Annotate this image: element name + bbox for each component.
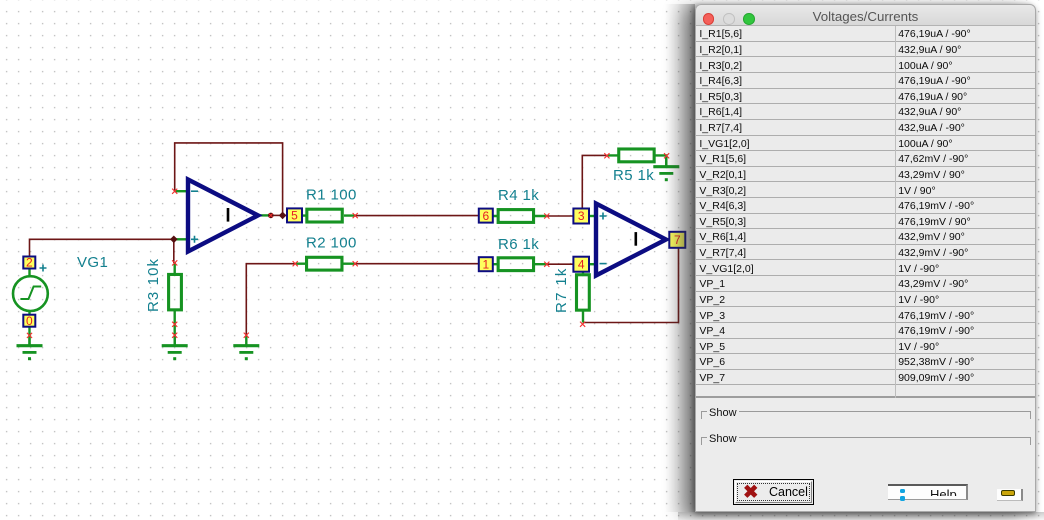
svg-text:R2 100: R2 100 [306,235,357,252]
op-amp U1 [188,180,258,252]
ground below R3 [173,335,175,346]
R5 leads [608,155,667,166]
R4 leads [493,215,547,217]
pin marker R3 top [172,260,177,265]
minimize traffic light [723,13,735,25]
wire U1 feedback loop [175,143,283,216]
svg-text:R4 1k: R4 1k [498,187,539,204]
VG1 plus polarity mark [40,265,47,272]
U1 output stub [257,214,272,216]
ground below R2 left wire [245,335,247,346]
junction at feedback/output node [279,212,287,220]
svg-text:R1 100: R1 100 [306,187,357,204]
R2 leads [296,263,357,265]
U1 inverting input stub [175,190,188,192]
R7 top lead [582,271,584,275]
pin marker R5 left [604,153,609,158]
pin marker VG1 ground [27,333,32,338]
pin marker R7 bottom [580,322,585,327]
svg-text:R3 10k: R3 10k [145,258,162,312]
node 0 [23,315,35,327]
svg-text:2: 2 [26,256,33,270]
resistor R2 [307,257,342,270]
VG1 top pin stub [28,269,30,276]
pin marker R6 right [544,262,549,267]
node 4 stub to U2 [589,263,595,265]
node 2 [23,257,35,269]
svg-text:4: 4 [578,257,585,271]
svg-text:6: 6 [482,209,489,223]
R1 leads [302,214,356,216]
resistor R1 [307,209,342,222]
Cancel button [733,479,814,505]
pin marker U1 inverting [172,189,177,194]
wire U1 output to node 5 [271,214,287,216]
ground below VG1 [28,335,30,346]
node 3 stub to U2 [589,215,595,217]
Voltages/Currents window [695,4,1036,512]
svg-text:0: 0 [26,314,33,328]
resistor R3 (vertical) [169,274,182,309]
resistor R4 [498,210,533,223]
U2 output stub [665,238,670,240]
pin marker R2 right [353,261,358,266]
wire R6 right to node 4 [547,263,573,265]
pin marker R2 left [293,261,298,266]
svg-text:5: 5 [291,209,298,223]
pin marker R1 right [353,213,358,218]
mini button (partially drawn) [997,489,1023,501]
resistor R6 [498,258,533,271]
svg-text:1: 1 [482,257,489,271]
node 5 [287,208,302,222]
U1 minus sign [191,190,198,192]
wire R4 right to node 3 [547,215,573,217]
U1 plus sign [191,236,198,243]
pin marker R4 right [544,213,549,218]
R7 bottom lead [582,312,584,323]
resistor R7 (vertical) [577,275,590,310]
R3 bottom lead [173,311,175,345]
svg-text:R6 1k: R6 1k [498,236,539,253]
Help button (partially drawn) [888,484,968,500]
U2 ideal marker I [635,232,638,246]
R6 leads [493,263,547,265]
VG1 bottom pin stub [28,312,30,345]
svg-text:VG1: VG1 [77,254,108,271]
title bar [695,4,1036,26]
node 1 [479,257,493,271]
pin marker R5 right [664,153,669,158]
resistor R5 [619,149,654,162]
op-amp U2 [596,204,666,276]
wire ground to R2 left [246,264,295,335]
node 7 [669,232,685,248]
wire R2 right to node 1 [356,263,479,265]
Show group box 2 [701,437,1031,445]
zoom traffic light [743,13,755,25]
U1 ideal marker I [227,208,230,222]
U2 plus sign [600,213,607,220]
ground at R5 right [665,156,667,167]
wire node 3 up to R5 left [582,155,607,207]
svg-text:R5 1k: R5 1k [613,167,654,184]
pin markers R3 bottom [172,322,177,327]
voltage generator VG1 [13,276,48,311]
node 3 [573,209,589,224]
U1 non-inverting input stub [175,238,188,240]
node 6 [479,209,493,223]
wire node 7 down and left to R7 bottom [583,246,679,323]
Show group box 1 [701,411,1031,419]
R3 top lead [173,262,175,274]
results table [695,26,1036,398]
pin marker R2 ground [244,333,249,338]
output pin marker on U1 [268,213,274,219]
wire VG1 top to op-amp U1 + input junction [30,239,174,256]
bottom drop shadow of window [678,512,1044,520]
wire junction down to R3 top [173,239,175,263]
wire R1 right to node 6 [356,215,479,217]
svg-text:R7 1k: R7 1k [553,267,570,313]
U2 minus sign [600,263,607,265]
left drop shadow of window [665,4,695,512]
svg-text:3: 3 [578,209,585,223]
node 4 [573,257,589,272]
close traffic light [703,13,715,25]
junction at U1 + input [170,236,178,244]
